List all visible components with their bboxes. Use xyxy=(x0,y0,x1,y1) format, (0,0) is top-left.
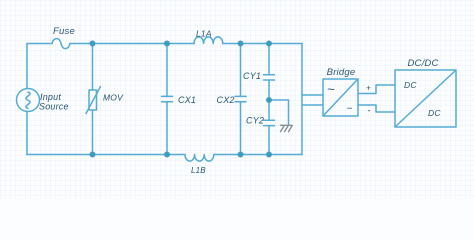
svg-text:~: ~ xyxy=(327,82,335,97)
svg-text:DC: DC xyxy=(428,108,441,118)
svg-text:+: + xyxy=(366,84,371,93)
capacitor CX2 plates xyxy=(235,96,246,101)
node CX1 top xyxy=(164,41,169,46)
wire ground branch vertical xyxy=(288,100,290,125)
node CX1 bottom xyxy=(164,152,169,157)
svg-text:Fuse: Fuse xyxy=(53,26,75,37)
svg-text:CX1: CX1 xyxy=(178,95,196,105)
wire bridge input stub upper xyxy=(302,94,323,96)
dc-dc U2 box xyxy=(395,70,456,127)
node fuse-MOV top xyxy=(90,41,95,46)
svg-text:Input: Input xyxy=(40,92,61,102)
wire CY branch lower xyxy=(268,126,270,154)
node CY2 bottom xyxy=(266,152,271,157)
wire CY branch upper xyxy=(268,44,270,74)
varistor MOV diagonal xyxy=(86,87,101,114)
inductor L1B xyxy=(185,155,214,162)
dc-dc U2 diagonal xyxy=(396,71,456,127)
capacitor CY1 plates xyxy=(264,75,275,80)
svg-text:L1B: L1B xyxy=(191,166,206,175)
capacitor CX1 plates xyxy=(162,96,173,101)
capacitor CY2 plates xyxy=(264,120,275,125)
wire CX2 branch upper xyxy=(240,44,242,96)
fuse F1 xyxy=(52,39,70,49)
wire right vertical xyxy=(301,44,303,155)
node CX2 bottom xyxy=(238,152,243,157)
node CY1 top xyxy=(266,41,271,46)
wire CX1 branch lower xyxy=(166,103,168,155)
wire bottom rail left segment xyxy=(27,154,185,156)
inductor L1A xyxy=(194,37,223,44)
svg-text:Source: Source xyxy=(39,102,69,112)
svg-text:CX2: CX2 xyxy=(217,95,235,105)
wire CX2 branch lower xyxy=(240,103,242,155)
wire left vertical lower xyxy=(26,112,28,155)
wire top rail middle segment xyxy=(70,43,194,45)
wire CY branch middle xyxy=(268,81,270,120)
wire ground branch horizontal xyxy=(269,99,289,101)
node CX2 top xyxy=(238,41,243,46)
svg-text:−: − xyxy=(347,104,353,115)
input source circle xyxy=(17,89,40,112)
wire MOV branch upper xyxy=(92,44,94,91)
varistor MOV body xyxy=(89,90,97,110)
svg-text:Bridge: Bridge xyxy=(327,67,356,78)
node CY midpoint xyxy=(266,97,271,102)
wire top rail right segment xyxy=(223,43,302,45)
wire left vertical upper xyxy=(26,44,28,89)
svg-text:CY2: CY2 xyxy=(246,116,264,126)
bridge U1 diagonal xyxy=(324,80,358,116)
wire MOV branch lower xyxy=(92,110,94,155)
wire bridge input stub lower xyxy=(302,104,323,106)
svg-text:DC/DC: DC/DC xyxy=(407,58,438,69)
node MOV bottom xyxy=(90,152,95,157)
bridge U1 box xyxy=(323,79,358,116)
wire bottom rail right segment xyxy=(214,154,302,156)
svg-text:-: - xyxy=(367,106,370,116)
wire CX1 branch upper xyxy=(166,44,168,96)
svg-text:L1A: L1A xyxy=(196,29,212,39)
wire bridge output plus xyxy=(358,85,395,94)
input source sine symbol xyxy=(26,92,30,109)
svg-text:MOV: MOV xyxy=(103,93,124,103)
wire bridge output minus xyxy=(358,105,395,112)
ground symbol xyxy=(281,125,293,131)
wire top rail left segment xyxy=(27,43,52,45)
svg-text:DC: DC xyxy=(404,80,417,90)
svg-text:CY1: CY1 xyxy=(243,71,261,81)
